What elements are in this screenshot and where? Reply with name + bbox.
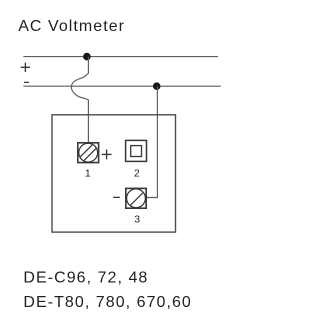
+ sign next to terminal 1	[102, 150, 112, 160]
node - (minus terminal label)	[24, 82, 29, 83]
junction dot on - rail	[153, 82, 161, 90]
junction dot on + rail	[83, 53, 91, 61]
svg-text:AC Voltmeter: AC Voltmeter	[18, 18, 125, 35]
wire: + rail (top horizontal)	[23, 56, 218, 58]
node + (plus terminal label)	[21, 63, 30, 72]
svg-text:1: 1	[85, 168, 91, 180]
svg-text:3: 3	[134, 213, 140, 225]
wire: from - rail down and left into terminal 3	[146, 86, 157, 197]
svg-text:DE-C96, 72, 48: DE-C96, 72, 48	[23, 270, 148, 287]
- sign next to terminal 3	[113, 197, 120, 198]
wire: - rail (bottom horizontal)	[23, 85, 220, 87]
meter outline box	[52, 115, 176, 232]
wire: from + rail down to terminal 1 with hop over - rail	[71, 57, 88, 143]
svg-text:DE-T80, 780, 670,60: DE-T80, 780, 670,60	[23, 294, 192, 311]
terminal 1 (screw terminal, + input)	[75, 139, 102, 166]
terminal 2 (square terminal, unused)	[126, 140, 147, 161]
terminal 3 (screw terminal, - input)	[126, 188, 147, 208]
svg-text:2: 2	[134, 168, 140, 180]
